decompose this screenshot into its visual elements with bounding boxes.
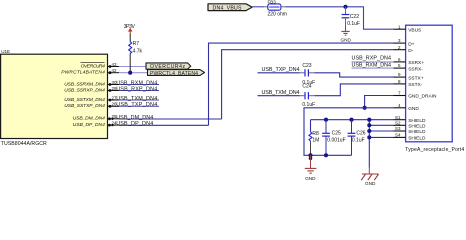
connector pin 6 SSRX+ [394, 57, 425, 66]
wire USB_DM_DN4 (pin25 to vertical) [119, 118, 222, 120]
svg-text:S3: S3 [395, 126, 401, 131]
svg-text:USB_DP_DN4: USB_DP_DN4 [116, 121, 153, 127]
svg-text:FB3: FB3 [268, 0, 277, 4]
svg-text:R8: R8 [312, 131, 319, 137]
svg-text:SSRX+: SSRX+ [408, 60, 424, 66]
svg-text:USB_SSTXP_DN4: USB_SSTXP_DN4 [64, 103, 105, 109]
svg-text:0.1uF: 0.1uF [302, 102, 315, 108]
connector pin 3 D+ [394, 38, 415, 47]
ground symbol under R8 [305, 155, 317, 181]
wire label to pin5 [352, 67, 394, 69]
connector pin 2 D- [394, 45, 414, 54]
svg-text:SHIELD: SHIELD [408, 136, 426, 142]
IC pin name OVERCUR4 (pin 43, active low) [81, 63, 106, 70]
IC U1E body [1, 49, 108, 147]
svg-text:OVERCUR4: OVERCUR4 [81, 63, 105, 69]
SHIELD bus wire [311, 119, 394, 121]
svg-text:GND: GND [408, 106, 419, 112]
connector pin S2 SHIELD [394, 120, 427, 129]
connector pin S3 SHIELD [394, 126, 427, 135]
svg-text:USB_DM_DN4: USB_DM_DN4 [116, 115, 153, 121]
wire C23 to pin9 [314, 73, 393, 77]
IC pin stub 30 [108, 80, 120, 86]
resistor R8 1M [309, 120, 319, 156]
svg-text:TypeA_receptacle_Port4: TypeA_receptacle_Port4 [405, 147, 464, 153]
off-page flag PWRCTL4_BATEN4 [148, 70, 205, 77]
IC pin stub 29 [108, 86, 120, 92]
svg-text:GND_DRAIN: GND_DRAIN [408, 94, 437, 100]
svg-text:SSTX+: SSTX+ [408, 75, 424, 81]
svg-text:USB_SSTXM_DN4: USB_SSTXM_DN4 [64, 97, 105, 103]
svg-text:U1E: U1E [1, 49, 10, 54]
off-page flag DN4_VBUS [208, 4, 252, 12]
wire TXM to C24 [258, 95, 300, 97]
svg-text:DN4_VBUS: DN4_VBUS [213, 5, 243, 11]
wire S4 [369, 136, 393, 138]
connector pin 9 SSTX+ [394, 72, 424, 81]
wire FB3 to connector pin1 [281, 6, 286, 8]
connector pin 5 SSRX- [394, 63, 424, 72]
svg-text:43: 43 [111, 62, 117, 67]
svg-text:USB_DP_DN4: USB_DP_DN4 [73, 122, 105, 128]
svg-text:SHIELD: SHIELD [408, 124, 426, 130]
ground symbol under C22 [340, 25, 351, 42]
capacitor C25 0.001uF [322, 120, 346, 156]
svg-text:SHIELD: SHIELD [408, 118, 426, 124]
capacitor C22 0.1uF [342, 7, 360, 27]
svg-text:SSRX-: SSRX- [408, 66, 423, 72]
stub wire pin30 [119, 84, 159, 86]
svg-text:D-: D- [408, 48, 413, 54]
svg-text:0.001uF: 0.001uF [327, 138, 345, 144]
wire VBUS flag to FB3 [252, 6, 264, 8]
wire S3 [369, 130, 393, 132]
svg-text:USB_DM_DN4: USB_DM_DN4 [73, 116, 105, 122]
svg-text:PWRCTL4_BATEN4: PWRCTL4_BATEN4 [150, 71, 198, 77]
svg-text:C26: C26 [356, 130, 365, 136]
svg-text:R7: R7 [133, 41, 140, 47]
svg-text:C25: C25 [332, 130, 341, 136]
svg-text:C22: C22 [350, 14, 359, 20]
chassis ground symbol (right) [361, 168, 378, 186]
svg-text:USB_RXP_DN4: USB_RXP_DN4 [352, 56, 392, 62]
connector pin 1 VBUS [394, 24, 422, 33]
capacitor C24 0.1uF (series) [302, 84, 315, 108]
shield vertical to chassis gnd [368, 120, 370, 168]
svg-text:S1: S1 [395, 115, 401, 120]
capacitor C26 0.1uF [348, 120, 366, 156]
svg-text:USB_SSRXP_DN4: USB_SSRXP_DN4 [64, 87, 105, 93]
svg-text:SSTX-: SSTX- [408, 82, 423, 88]
wire TXP to C23 [258, 72, 300, 74]
wire C24 to pin8 [314, 84, 393, 96]
svg-text:42: 42 [111, 68, 117, 73]
IC pin stub 24 [108, 120, 120, 126]
connector J TypeA_receptacle_Port4 body [405, 25, 464, 153]
svg-text:S2: S2 [395, 120, 401, 125]
connector pin 8 SSTX- [394, 79, 423, 88]
svg-text:220 ohm: 220 ohm [268, 12, 287, 18]
wire vertical DP up [209, 43, 394, 125]
wire GND pin4 [304, 108, 394, 156]
power symbol 3P3V [124, 24, 136, 34]
junction dots shield bus [324, 118, 328, 122]
junction dot VBUS/C22 [343, 5, 347, 9]
junction dot pin7/pin4 [363, 106, 367, 110]
svg-text:USB_TXM_DN4: USB_TXM_DN4 [116, 96, 157, 102]
connector pin 7 GND_DRAIN [394, 91, 437, 100]
svg-text:USB_TXP_DN4: USB_TXP_DN4 [116, 102, 157, 108]
wire USB_DP_DN4 (pin24 to vertical) [119, 124, 209, 126]
wire label to pin6 [352, 61, 394, 63]
resistor R7 4.7k [129, 33, 143, 72]
IC pin stub 27 [108, 95, 120, 101]
svg-text:TUSB8044A/RGCR: TUSB8044A/RGCR [1, 141, 47, 147]
wire GND_DRAIN pin7 [365, 96, 394, 108]
stub wire pin27 [119, 99, 159, 101]
svg-text:GND: GND [365, 181, 376, 185]
svg-text:C23: C23 [302, 63, 311, 69]
svg-text:PWRCTL4BATEN4: PWRCTL4BATEN4 [61, 70, 105, 76]
svg-text:GND: GND [305, 176, 316, 181]
wire pin42 to flag [119, 72, 148, 74]
svg-text:0.1uF: 0.1uF [347, 21, 360, 27]
svg-text:GND: GND [340, 37, 351, 42]
wire vertical DM up [222, 50, 394, 119]
stub wire pin29 [119, 90, 159, 92]
svg-text:C24: C24 [302, 84, 311, 90]
svg-text:4.7k: 4.7k [133, 49, 143, 55]
svg-text:D+: D+ [408, 41, 414, 47]
svg-text:1M: 1M [312, 137, 319, 143]
svg-text:USB_RXM_DN4: USB_RXM_DN4 [352, 62, 392, 68]
svg-text:S4: S4 [395, 133, 401, 138]
connector pin S1 SHIELD [394, 115, 427, 124]
capacitor C23 0.1uF (series) [302, 63, 315, 86]
junction dot R7 to pin42 wire [128, 71, 132, 75]
connector pin S4 SHIELD [394, 133, 427, 142]
svg-text:USB_RXP_DN4: USB_RXP_DN4 [116, 86, 157, 92]
connector pin 4 GND [394, 103, 420, 112]
svg-text:0.1uF: 0.1uF [352, 138, 365, 144]
IC pin stub 43 [108, 62, 120, 68]
wire pin43 to flag [119, 66, 147, 68]
svg-text:USB_SSRXM_DN4: USB_SSRXM_DN4 [64, 81, 105, 87]
stub wire pin26 [119, 105, 159, 107]
IC pin stub 25 [108, 114, 120, 120]
svg-text:VBUS: VBUS [408, 27, 421, 33]
ferrite bead FB3 220 ohm [268, 0, 287, 18]
IC pin stub 42 [108, 68, 120, 74]
IC pin stub 26 [108, 102, 120, 108]
svg-text:SHIELD: SHIELD [408, 129, 426, 135]
junction dots ground rail [308, 153, 312, 157]
wire S2 [369, 124, 393, 126]
off-page flag OVERCUR4 [146, 63, 191, 70]
